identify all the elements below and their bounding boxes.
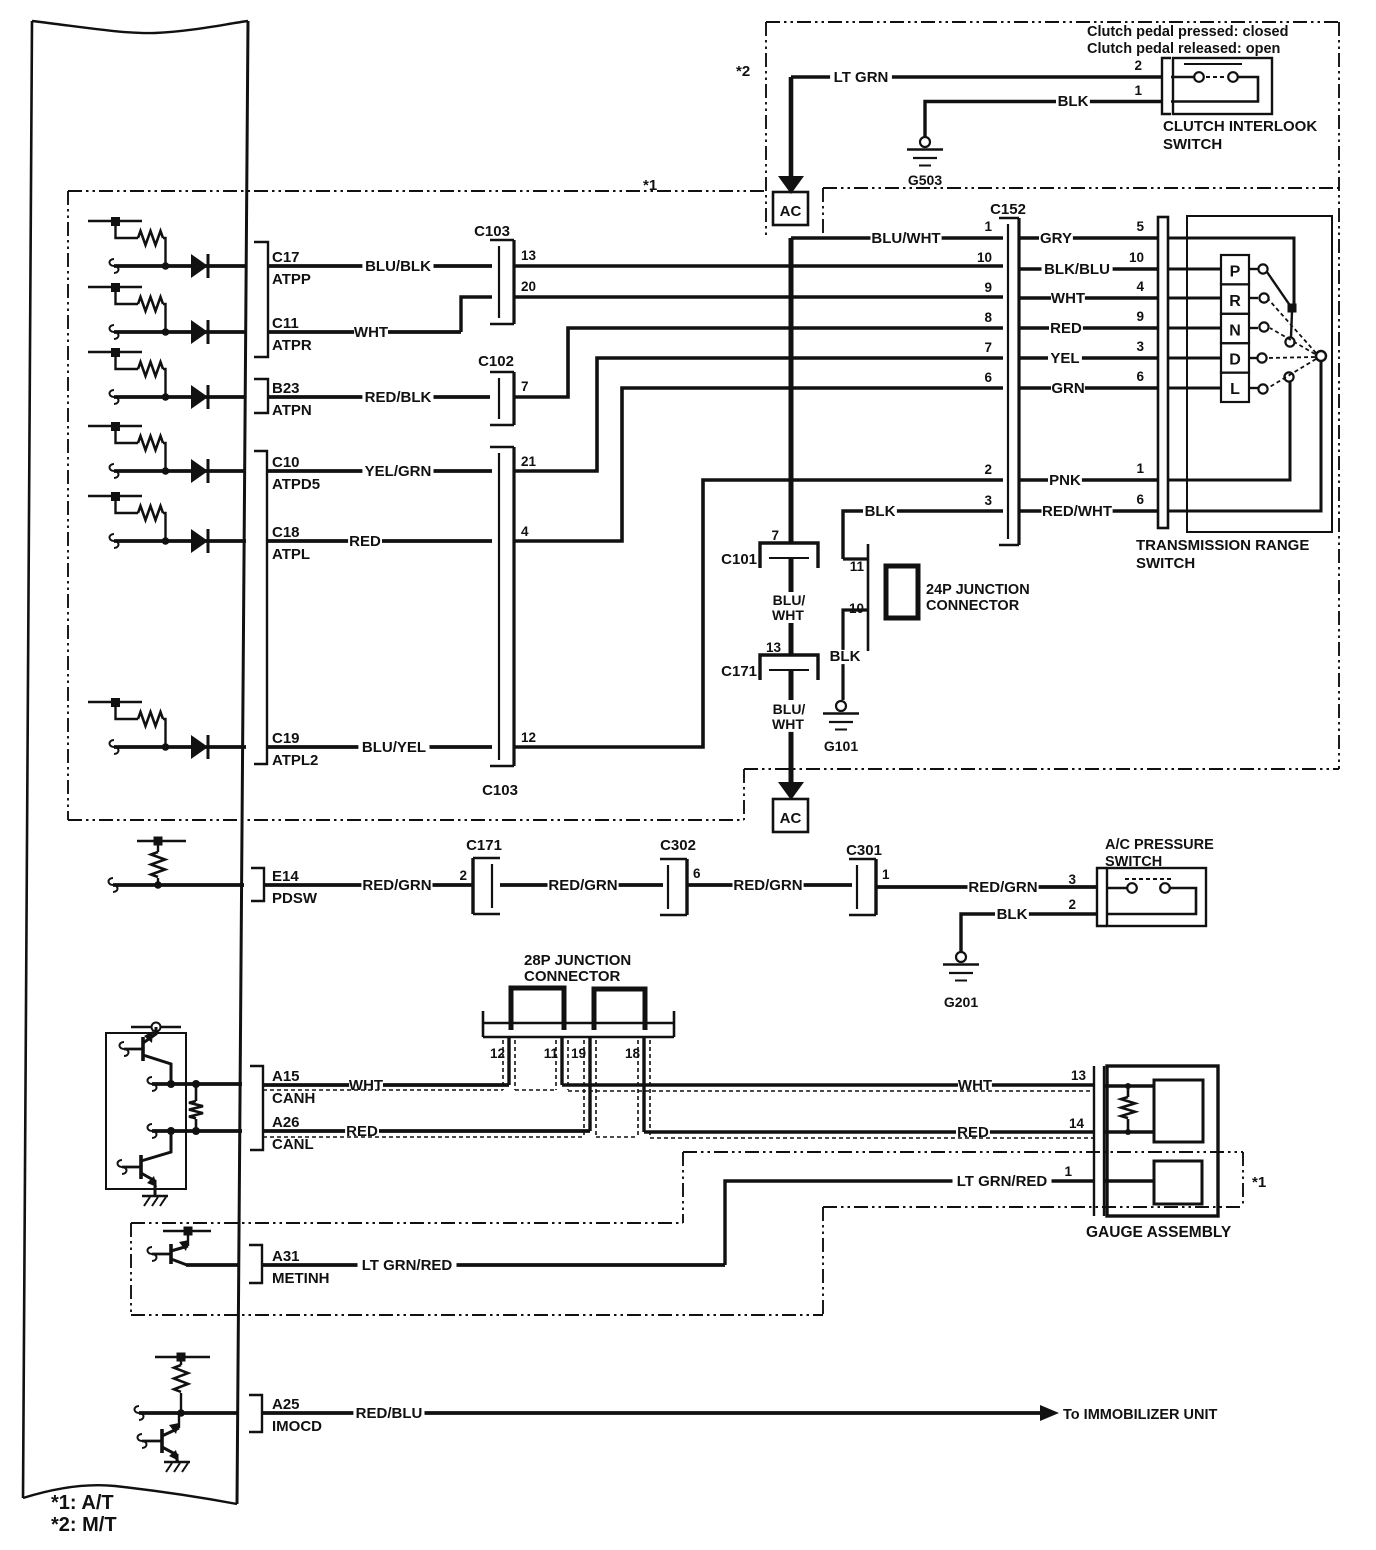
wire PNK C152-1 to switch	[1019, 478, 1158, 481]
connector C302	[685, 859, 688, 915]
svg-text:C302: C302	[660, 837, 696, 854]
internal pull-up bar	[88, 286, 142, 288]
gauge unit upper	[1154, 1080, 1203, 1142]
ground G101	[836, 701, 846, 711]
svg-text:RED/GRN: RED/GRN	[362, 877, 431, 894]
ECM connector bracket A31	[249, 1245, 262, 1283]
svg-text:14: 14	[1069, 1116, 1085, 1131]
svg-text:CANL: CANL	[272, 1136, 314, 1153]
svg-text:9: 9	[984, 280, 992, 295]
resistor	[138, 506, 163, 520]
gauge resistor	[1127, 1086, 1130, 1097]
transmission range switch connector bar	[1158, 217, 1168, 528]
svg-text:GRN: GRN	[1051, 380, 1084, 397]
svg-text:RED/GRN: RED/GRN	[548, 877, 617, 894]
wire BLK down to 24P junction pin 11	[843, 557, 868, 560]
gauge assembly connector bar	[1093, 1066, 1095, 1216]
wire BLK clutch switch pin 1 to ground	[925, 102, 1162, 138]
28P junction bus bars	[511, 988, 564, 1030]
svg-text:BLK: BLK	[865, 503, 896, 520]
svg-text:*1: *1	[1252, 1174, 1266, 1191]
diode	[191, 459, 208, 483]
svg-text:WHT: WHT	[1051, 290, 1085, 307]
svg-text:BLU/: BLU/	[773, 592, 806, 608]
svg-text:GAUGE ASSEMBLY: GAUGE ASSEMBLY	[1086, 1224, 1232, 1241]
junction	[192, 1127, 200, 1135]
svg-text:LT GRN/RED: LT GRN/RED	[957, 1173, 1048, 1190]
svg-text:7: 7	[771, 528, 779, 543]
svg-text:RED: RED	[1050, 320, 1082, 337]
diode	[191, 529, 208, 553]
junction	[162, 743, 170, 751]
wire pull-up to resistor	[116, 287, 139, 304]
wire BLU/WHT C171 to AC	[789, 670, 794, 700]
svg-text:A26: A26	[272, 1114, 300, 1131]
wire row	[114, 539, 246, 543]
wire RED/GRN C301 to A/C pressure switch	[876, 885, 1097, 889]
ECM internal circuit for E14: pull-up resistor	[137, 840, 186, 842]
wire RED/GRN E14 to C171	[264, 883, 473, 887]
svg-text:ATPP: ATPP	[272, 271, 311, 288]
wire C18 RED to C103	[267, 539, 492, 543]
wire RED C152-9 to switch	[1019, 326, 1158, 329]
svg-text:A31: A31	[272, 1248, 300, 1265]
junction	[154, 881, 162, 889]
wire row	[114, 330, 246, 334]
resistor	[138, 362, 163, 376]
svg-text:C171: C171	[466, 837, 502, 854]
svg-text:13: 13	[521, 248, 537, 263]
clutch interlock switch box	[1173, 58, 1272, 114]
wire YEL/GRN row to C152 pin 7	[514, 358, 1003, 471]
svg-text:ATPR: ATPR	[272, 337, 312, 354]
ground G201	[956, 952, 966, 962]
resistor	[138, 297, 163, 311]
hook	[110, 464, 119, 478]
svg-text:GRY: GRY	[1040, 230, 1072, 247]
svg-text:10: 10	[849, 601, 864, 616]
svg-text:C19: C19	[272, 730, 300, 747]
svg-text:RED/WHT: RED/WHT	[1042, 503, 1112, 520]
svg-text:AC: AC	[780, 810, 802, 827]
wire C10 YEL/GRN to C103	[267, 469, 492, 473]
svg-text:24P JUNCTION: 24P JUNCTION	[926, 582, 1030, 598]
wire pull-up to resistor	[116, 352, 139, 369]
svg-text:5: 5	[1136, 219, 1144, 234]
wire resistor to row	[163, 719, 166, 747]
hook	[110, 390, 119, 404]
svg-text:C102: C102	[478, 353, 514, 370]
connector C102	[512, 372, 515, 425]
svg-text:*2: M/T: *2: M/T	[51, 1514, 117, 1536]
junction	[162, 328, 170, 336]
svg-text:BLK/BLU: BLK/BLU	[1044, 261, 1110, 278]
svg-text:RED: RED	[349, 533, 381, 550]
svg-text:10: 10	[1129, 250, 1144, 265]
hook	[110, 325, 119, 339]
transistor Q1 (CANH)	[141, 1037, 145, 1061]
svg-text:C101: C101	[721, 551, 757, 568]
svg-text:PNK: PNK	[1049, 472, 1081, 489]
gauge unit lower	[1154, 1161, 1202, 1204]
transistor Q2 (CANL)	[139, 1155, 143, 1179]
switch common square	[1288, 304, 1297, 313]
connector C171	[471, 858, 474, 914]
ground G503	[920, 137, 930, 147]
svg-text:METINH: METINH	[272, 1270, 330, 1287]
junction	[192, 1080, 200, 1088]
svg-text:G101: G101	[824, 738, 858, 754]
terminating resistor	[195, 1084, 198, 1101]
svg-text:Clutch pedal pressed: closed: Clutch pedal pressed: closed	[1087, 24, 1288, 40]
diode	[191, 385, 208, 409]
wire CANL row	[152, 1129, 242, 1133]
svg-text:B23: B23	[272, 380, 300, 397]
svg-text:C17: C17	[272, 249, 300, 266]
svg-text:BLK: BLK	[1058, 93, 1089, 110]
ground chassis	[164, 1461, 190, 1463]
wire RED 28P pin 18 to gauge pin 14	[642, 1037, 645, 1132]
gauge wires inside	[1104, 1084, 1154, 1087]
svg-text:C301: C301	[846, 842, 882, 859]
svg-text:*1: *1	[643, 177, 657, 194]
svg-text:BLU/BLK: BLU/BLK	[365, 258, 431, 275]
svg-text:P: P	[1230, 264, 1241, 281]
junction	[177, 1409, 185, 1417]
svg-text:BLK: BLK	[997, 906, 1028, 923]
svg-text:LT GRN/RED: LT GRN/RED	[362, 1257, 453, 1274]
svg-text:AC: AC	[780, 203, 802, 220]
svg-text:4: 4	[1136, 279, 1144, 294]
svg-text:*2: *2	[736, 63, 750, 80]
diode	[191, 320, 208, 344]
svg-text:WHT: WHT	[354, 324, 388, 341]
svg-text:6: 6	[984, 370, 992, 385]
wire C19 BLU/YEL to C103	[267, 745, 492, 749]
svg-text:A25: A25	[272, 1396, 300, 1413]
svg-text:Clutch pedal released: open: Clutch pedal released: open	[1087, 41, 1280, 57]
svg-text:28P JUNCTION: 28P JUNCTION	[524, 952, 631, 969]
wire RED A26 to 28P pin 19	[263, 1129, 590, 1133]
junction	[162, 537, 170, 545]
wire BLU/BLK row to C152 pin 10	[514, 264, 1003, 268]
A/C pressure switch internals	[1125, 878, 1172, 880]
connector C171 mid	[760, 655, 818, 680]
svg-text:6: 6	[1136, 369, 1144, 384]
ECM connector bracket E14	[251, 868, 264, 901]
svg-text:20: 20	[521, 279, 536, 294]
ECM internal circuit for A25: resistor + transistor	[155, 1356, 210, 1358]
svg-text:PDSW: PDSW	[272, 890, 318, 907]
junction	[162, 393, 170, 401]
A/C pressure switch box	[1107, 868, 1206, 926]
svg-text:LT GRN: LT GRN	[834, 69, 889, 86]
svg-text:CONNECTOR: CONNECTOR	[524, 968, 621, 985]
ECM connector bracket C10/C18/C19	[254, 451, 267, 764]
svg-text:WHT: WHT	[772, 716, 804, 732]
svg-text:ATPD5: ATPD5	[272, 476, 320, 493]
svg-text:WHT: WHT	[772, 607, 804, 623]
svg-text:L: L	[1230, 381, 1240, 398]
ECM connector bracket B23	[254, 379, 268, 413]
hook	[110, 534, 119, 548]
diode	[191, 254, 208, 278]
svg-text:WHT: WHT	[349, 1077, 383, 1094]
arrow into AC upper	[778, 176, 804, 194]
wire B23 RED/BLK to C102	[268, 395, 490, 399]
svg-text:10: 10	[977, 250, 992, 265]
svg-text:E14: E14	[272, 868, 299, 885]
wire resistor to row	[163, 443, 166, 471]
switch contacts	[1258, 264, 1267, 273]
svg-text:3: 3	[1068, 872, 1076, 887]
svg-text:C103: C103	[474, 223, 510, 240]
resistor	[138, 712, 163, 726]
wire C17 BLU/BLK to C103	[268, 264, 492, 268]
ECM connector bracket C17/C11	[254, 242, 268, 357]
svg-text:1: 1	[882, 867, 890, 882]
svg-text:2: 2	[459, 868, 467, 883]
svg-text:6: 6	[693, 866, 701, 881]
svg-text:7: 7	[984, 340, 992, 355]
connector C301	[874, 859, 877, 915]
connector C103 lower	[512, 447, 515, 766]
svg-text:SWITCH: SWITCH	[1105, 854, 1162, 870]
ECM connector bracket A25	[249, 1395, 262, 1432]
wire RED/GRN C171 to C302	[500, 883, 663, 887]
wire YEL C152-3 to switch	[1019, 356, 1158, 359]
ECM internal circuit for A31: transistor	[163, 1230, 211, 1232]
transistor Q3	[178, 1413, 180, 1428]
internal pull-up bar	[88, 701, 142, 703]
wire RED/BLU A25 to immobilizer	[262, 1411, 1043, 1415]
svg-text:R: R	[1229, 293, 1241, 310]
wire LT GRN/RED A31 to gauge pin 1	[262, 1263, 725, 1267]
svg-text:8: 8	[984, 310, 992, 325]
wire RED/WHT C152-6 to switch	[1019, 509, 1158, 512]
junction	[167, 1127, 175, 1135]
svg-text:ATPN: ATPN	[272, 402, 312, 419]
wire WHT row to C152 pin 9	[514, 295, 1003, 299]
svg-text:C18: C18	[272, 524, 300, 541]
switch rotor pivot	[1316, 351, 1326, 361]
svg-text:CANH: CANH	[272, 1090, 315, 1107]
wire A31 row	[186, 1263, 239, 1267]
wire GRY C152-5 to switch	[1019, 236, 1158, 239]
svg-text:12: 12	[521, 730, 536, 745]
shield dashes CANL	[263, 1136, 584, 1138]
svg-text:YEL: YEL	[1050, 350, 1079, 367]
connector C101	[760, 543, 818, 568]
transmission range switch outline	[1187, 216, 1332, 532]
wire RED/BLK row to C152 pin 8	[514, 328, 1003, 397]
wire BLU/WHT C101 to C171	[789, 558, 794, 592]
svg-text:2: 2	[1134, 58, 1142, 73]
wire RED/GRN C302 to C301	[687, 883, 852, 887]
internal pull-up bar	[88, 220, 142, 222]
wire row	[114, 469, 246, 473]
svg-text:D: D	[1229, 352, 1241, 369]
wire row	[114, 395, 246, 399]
junction	[162, 262, 170, 270]
supply node circle	[152, 1023, 161, 1032]
wire WHT 28P pin 11 to gauge pin 13	[560, 1037, 563, 1085]
svg-text:BLU/: BLU/	[773, 701, 806, 717]
svg-text:IMOCD: IMOCD	[272, 1418, 322, 1435]
clutch switch internals	[1184, 63, 1242, 65]
svg-text:ATPL: ATPL	[272, 546, 310, 563]
transmission range switch internal wiring	[1168, 238, 1294, 304]
svg-text:RED/BLU: RED/BLU	[356, 1405, 423, 1422]
svg-text:4: 4	[521, 524, 529, 539]
wire LT GRN to clutch switch pin 2	[789, 77, 794, 180]
svg-text:A15: A15	[272, 1068, 300, 1085]
internal pull-up bar	[88, 495, 142, 497]
svg-text:1: 1	[1064, 1164, 1072, 1179]
hook	[110, 740, 119, 754]
hook	[148, 1124, 157, 1138]
svg-text:2: 2	[1068, 897, 1076, 912]
wire pull-up to resistor	[116, 221, 139, 238]
junction	[167, 1080, 175, 1088]
svg-text:6: 6	[1136, 492, 1144, 507]
svg-text:BLK: BLK	[830, 648, 861, 665]
AC box upper	[773, 192, 808, 225]
svg-text:ATPL2: ATPL2	[272, 752, 318, 769]
hook	[109, 878, 118, 892]
hook	[110, 259, 119, 273]
ground chassis	[142, 1195, 168, 1197]
wire BLU/YEL row to C152 pin 2	[514, 480, 1003, 747]
wire 24P junction pin 10 to ground	[843, 610, 868, 700]
wire resistor to row	[163, 513, 166, 541]
wire BLK from junction to C152 pin 3	[843, 511, 1003, 559]
svg-text:C10: C10	[272, 454, 300, 471]
svg-text:BLU/WHT: BLU/WHT	[871, 230, 940, 247]
junction	[162, 467, 170, 475]
svg-text:SWITCH: SWITCH	[1163, 136, 1222, 153]
arrow to immobilizer	[1040, 1405, 1059, 1421]
svg-text:13: 13	[766, 640, 782, 655]
wire resistor to row	[163, 369, 166, 397]
svg-text:9: 9	[1136, 309, 1144, 324]
CAN transceiver box	[106, 1033, 186, 1189]
wire BLK A/C switch pin 2 to ground	[961, 914, 1097, 952]
wire pull-up to resistor	[116, 496, 139, 513]
M/T region *2 border	[766, 21, 1339, 23]
svg-text:3: 3	[984, 493, 992, 508]
internal pull-up bar	[88, 425, 142, 427]
connector C103 upper	[512, 240, 515, 324]
wire row	[114, 745, 246, 749]
wire BLU/WHT from AC node to C152 pin 1	[789, 238, 794, 544]
svg-text:1: 1	[1136, 461, 1144, 476]
svg-text:21: 21	[521, 454, 537, 469]
svg-text:3: 3	[1136, 339, 1144, 354]
svg-text:11: 11	[850, 559, 865, 574]
wire pull-up to resistor	[116, 426, 139, 443]
svg-text:7: 7	[521, 379, 529, 394]
svg-text:A/C PRESSURE: A/C PRESSURE	[1105, 837, 1214, 853]
svg-text:1: 1	[984, 219, 992, 234]
arrow into AC (A/C signal)	[778, 782, 804, 800]
resistor	[138, 436, 163, 450]
wire BLK/BLU C152-10 to switch	[1019, 267, 1158, 270]
resistor	[138, 231, 163, 245]
svg-text:G201: G201	[944, 994, 978, 1010]
ECM band outline	[32, 21, 248, 33]
svg-text:2: 2	[984, 462, 992, 477]
wire C11 WHT to C103 pin 20	[268, 330, 461, 334]
svg-text:1: 1	[1134, 83, 1142, 98]
A/T region border around A31/METINH	[131, 1222, 683, 1224]
svg-text:BLU/YEL: BLU/YEL	[362, 739, 426, 756]
wire CANH row	[152, 1082, 242, 1086]
wire pull-up to resistor	[116, 702, 139, 719]
wire RED row to C152 pin 6	[514, 388, 1003, 541]
A/C pressure switch connector bracket	[1097, 868, 1107, 926]
28P junction connector body	[482, 1011, 485, 1037]
wire A25 row	[139, 1411, 239, 1415]
svg-text:RED/GRN: RED/GRN	[733, 877, 802, 894]
svg-text:N: N	[1229, 322, 1241, 339]
ECM connector bracket A15/A26	[250, 1066, 263, 1150]
svg-text:G503: G503	[908, 172, 942, 188]
wire GRN C152-6 to switch	[1019, 386, 1158, 389]
diode	[191, 735, 208, 759]
clutch interlock switch connector bracket	[1162, 58, 1171, 114]
svg-text:RED/BLK: RED/BLK	[365, 389, 432, 406]
svg-text:CONNECTOR: CONNECTOR	[926, 598, 1020, 614]
shield dashes CANH	[263, 1089, 503, 1091]
svg-text:SWITCH: SWITCH	[1136, 555, 1195, 572]
24P junction connector	[867, 544, 870, 651]
svg-text:C171: C171	[721, 663, 757, 680]
svg-text:C103: C103	[482, 782, 518, 799]
switch arm (P position)	[1267, 272, 1289, 304]
gauge assembly box	[1107, 1066, 1218, 1216]
svg-text:C152: C152	[990, 201, 1026, 218]
wire resistor to row	[163, 304, 166, 332]
connector C152	[1017, 218, 1020, 545]
svg-text:*1: A/T: *1: A/T	[51, 1492, 114, 1514]
internal pull-up bar	[88, 351, 142, 353]
svg-text:To IMMOBILIZER UNIT: To IMMOBILIZER UNIT	[1063, 1407, 1218, 1423]
hook	[135, 1406, 144, 1420]
svg-text:C11: C11	[272, 315, 299, 332]
wire row	[114, 264, 246, 268]
wire resistor to row	[163, 238, 166, 266]
svg-text:13: 13	[1071, 1068, 1087, 1083]
svg-text:YEL/GRN: YEL/GRN	[365, 463, 432, 480]
CAN transceiver supply bar	[131, 1026, 181, 1028]
switch position gates P R N D L	[1221, 255, 1249, 284]
wire WHT C152-4 to switch	[1019, 296, 1158, 299]
svg-text:RED/GRN: RED/GRN	[968, 879, 1037, 896]
wire WHT A15 to 28P pin 12	[263, 1083, 509, 1087]
AC box lower	[773, 799, 808, 832]
svg-text:CLUTCH INTERLOOK: CLUTCH INTERLOOK	[1163, 118, 1317, 135]
wire E14 row	[113, 883, 244, 887]
switch contact stubs	[1249, 268, 1258, 270]
svg-text:TRANSMISSION RANGE: TRANSMISSION RANGE	[1136, 537, 1309, 554]
A/T region *1 border	[68, 190, 766, 192]
hook	[148, 1077, 157, 1091]
switch alternate positions (dashed)	[1269, 300, 1316, 353]
